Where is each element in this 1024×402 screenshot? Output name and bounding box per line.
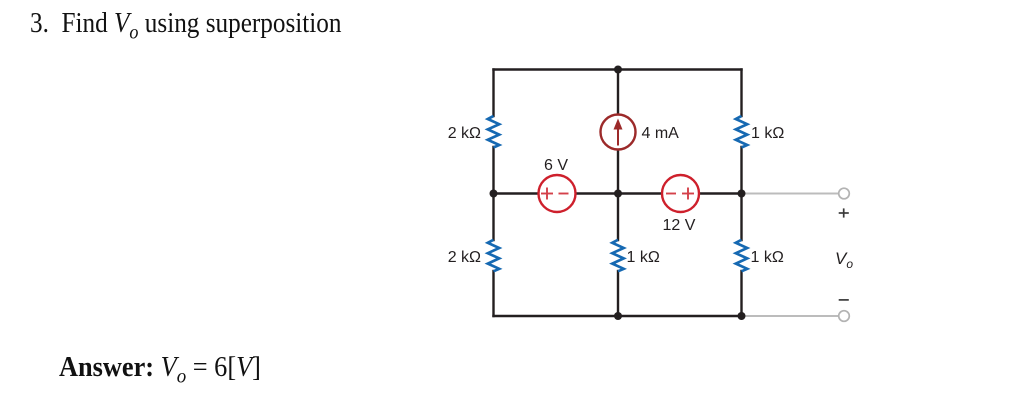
resistor R3 2k bottom-left (488, 240, 499, 271)
resistor R4 1k bottom-middle (612, 240, 623, 271)
wire right vertical middle (740, 147, 742, 240)
svg-text:2 kΩ: 2 kΩ (448, 125, 481, 142)
6V minus sign (559, 193, 569, 195)
wire middle vertical upper (617, 70, 619, 115)
12V minus sign (666, 188, 694, 200)
svg-text:1 kΩ: 1 kΩ (627, 249, 660, 266)
svg-text:1 kΩ: 1 kΩ (751, 125, 784, 142)
output terminal top (839, 188, 850, 199)
junction node mid-right (738, 190, 746, 198)
junction node bottom-middle (614, 312, 622, 320)
wire middle horizontal right segment (699, 192, 742, 194)
voltage source 6V circle (539, 175, 576, 212)
junction node mid-left (490, 190, 498, 198)
label minus terminal (839, 299, 849, 301)
resistor R5 1k bottom-right (736, 240, 747, 271)
resistor R2 1k top-right (736, 116, 747, 148)
wire left vertical bottom (492, 271, 494, 316)
current source 4mA circle (601, 115, 636, 150)
svg-text:12 V: 12 V (663, 217, 696, 234)
output terminal bottom (839, 311, 850, 322)
wire left vertical lower (492, 147, 494, 240)
voltage source 12V circle (662, 175, 699, 212)
svg-text:6 V: 6 V (544, 157, 568, 174)
svg-text:Vo: Vo (835, 249, 853, 271)
label plus terminal (839, 208, 849, 217)
current source arrow (614, 119, 623, 146)
wire middle horizontal left segment (494, 192, 539, 194)
wire left vertical upper (492, 70, 494, 117)
resistor R1 2k top-left (488, 116, 499, 148)
wire middle horizontal center segment (576, 192, 663, 194)
12V plus sign (682, 193, 694, 195)
wire middle vertical bottom (617, 271, 619, 316)
junction node top-middle (614, 66, 622, 74)
wire middle vertical between sources (617, 150, 619, 240)
wire bottom horizontal (494, 315, 742, 317)
svg-text:2 kΩ: 2 kΩ (448, 249, 481, 266)
junction node bottom-right (738, 312, 746, 320)
svg-text:4 mA: 4 mA (642, 125, 680, 142)
wire top horizontal (494, 68, 742, 70)
6V plus sign (541, 188, 569, 200)
output wire top (gray) (742, 193, 839, 195)
wire right vertical upper (740, 70, 742, 117)
junction node mid-center (614, 190, 622, 198)
wire right vertical bottom (740, 271, 742, 316)
svg-text:1 kΩ: 1 kΩ (751, 249, 784, 266)
answer text (59, 352, 261, 389)
output wire bottom (gray) (742, 315, 839, 317)
problem title text (30, 8, 341, 45)
